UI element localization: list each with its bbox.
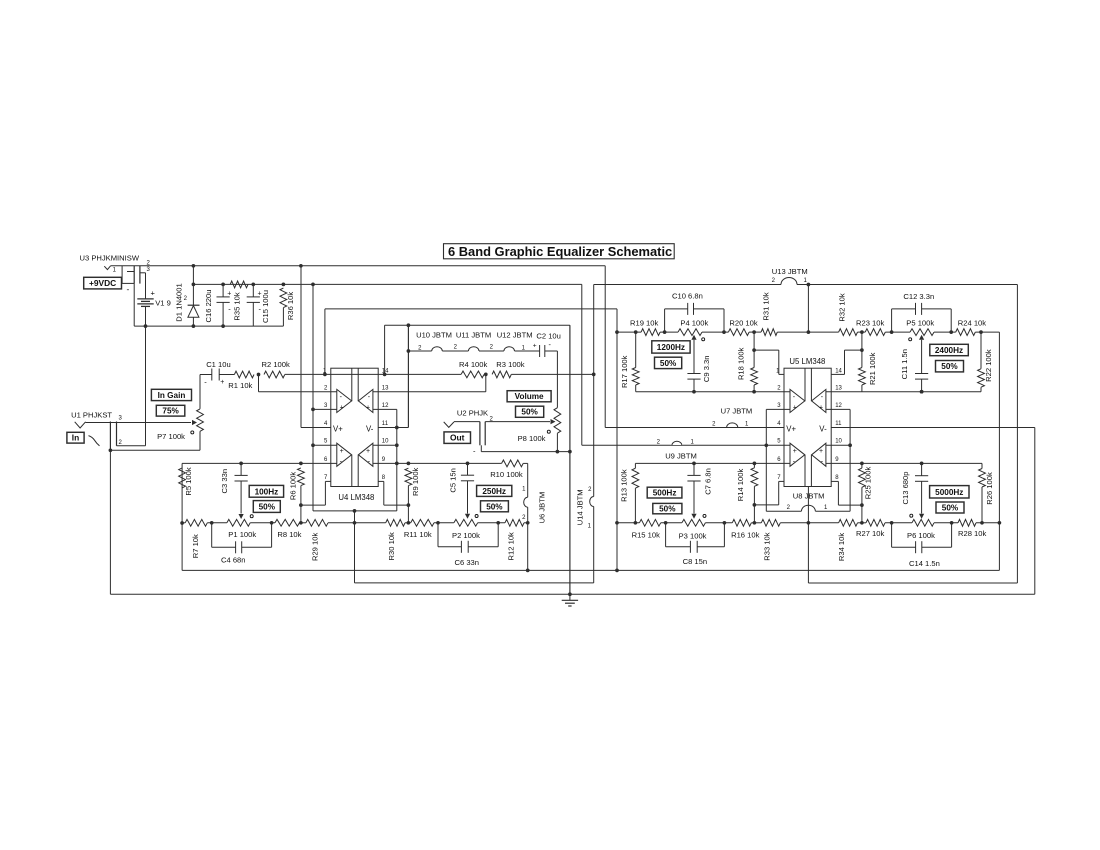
svg-text:+: +: [340, 404, 344, 411]
svg-text:C4 68n: C4 68n: [221, 556, 246, 565]
svg-text:R16 10k: R16 10k: [731, 530, 759, 539]
svg-text:500Hz: 500Hz: [653, 489, 677, 498]
svg-text:C3 33n: C3 33n: [220, 469, 229, 494]
svg-text:R33 10k: R33 10k: [763, 532, 772, 560]
svg-text:R12 10k: R12 10k: [507, 532, 516, 560]
svg-text:R29 10k: R29 10k: [310, 533, 319, 561]
svg-text:R13 100k: R13 100k: [620, 469, 629, 502]
svg-text:+: +: [819, 448, 823, 455]
svg-text:R11 10k: R11 10k: [404, 530, 432, 539]
svg-text:+: +: [793, 448, 797, 455]
svg-text:50%: 50%: [660, 359, 677, 368]
svg-text:75%: 75%: [162, 407, 179, 416]
svg-text:6 Band Graphic Equalizer Schem: 6 Band Graphic Equalizer Schematic: [448, 244, 672, 259]
svg-text:11: 11: [835, 421, 842, 427]
svg-text:R15 10k: R15 10k: [632, 530, 660, 539]
svg-text:U1 PHJKST: U1 PHJKST: [71, 410, 112, 419]
svg-text:+: +: [227, 290, 231, 297]
svg-text:P4 100k: P4 100k: [680, 318, 708, 327]
svg-text:In: In: [72, 433, 79, 443]
svg-text:14: 14: [835, 369, 842, 375]
svg-text:R6 100k: R6 100k: [288, 472, 297, 500]
svg-text:R9 100k: R9 100k: [411, 467, 420, 495]
svg-text:U10 JBTM: U10 JBTM: [416, 331, 452, 340]
svg-text:50%: 50%: [942, 504, 959, 513]
svg-text:C1 10u: C1 10u: [206, 360, 231, 369]
svg-text:Volume: Volume: [515, 392, 544, 401]
svg-text:R36 10k: R36 10k: [286, 292, 295, 320]
svg-text:U7 JBTM: U7 JBTM: [721, 407, 753, 416]
svg-text:C8 15n: C8 15n: [683, 557, 708, 566]
svg-text:10: 10: [835, 439, 842, 445]
svg-text:P6 100k: P6 100k: [907, 531, 935, 540]
svg-text:R19 10k: R19 10k: [630, 318, 658, 327]
svg-text:R14 100k: R14 100k: [736, 469, 745, 502]
svg-text:U5 LM348: U5 LM348: [789, 357, 825, 366]
svg-text:100Hz: 100Hz: [255, 487, 279, 496]
svg-text:12: 12: [382, 403, 389, 409]
svg-text:+: +: [819, 404, 823, 411]
svg-text:R17 100k: R17 100k: [620, 355, 629, 388]
svg-text:P1 100k: P1 100k: [228, 530, 256, 539]
svg-text:R10 100k: R10 100k: [490, 470, 523, 479]
svg-text:P2 100k: P2 100k: [452, 531, 480, 540]
svg-text:C12 3.3n: C12 3.3n: [903, 292, 934, 301]
svg-text:R5 100k: R5 100k: [184, 467, 193, 495]
svg-text:+: +: [793, 404, 797, 411]
svg-text:C15 100u: C15 100u: [261, 290, 270, 323]
svg-text:R25 100k: R25 100k: [864, 467, 873, 500]
svg-text:5000Hz: 5000Hz: [935, 488, 963, 497]
svg-text:U13 JBTM: U13 JBTM: [772, 267, 808, 276]
svg-text:C14 1.5n: C14 1.5n: [909, 559, 940, 568]
svg-text:R8 10k: R8 10k: [277, 530, 301, 539]
svg-text:R26 100k: R26 100k: [985, 472, 994, 505]
svg-text:C6 33n: C6 33n: [455, 558, 480, 567]
svg-text:+: +: [220, 379, 224, 386]
svg-text:R18 100k: R18 100k: [737, 347, 746, 380]
svg-text:+: +: [340, 448, 344, 455]
svg-text:C9 3.3n: C9 3.3n: [702, 355, 711, 382]
svg-text:U3 PHJKMINISW: U3 PHJKMINISW: [80, 253, 140, 262]
svg-text:P7 100k: P7 100k: [157, 432, 185, 441]
svg-text:V-: V-: [819, 424, 827, 433]
svg-text:P8 100k: P8 100k: [518, 434, 546, 443]
svg-text:C7 6.8n: C7 6.8n: [704, 468, 713, 495]
svg-text:+: +: [366, 448, 370, 455]
svg-text:50%: 50%: [259, 503, 276, 512]
svg-text:R27 10k: R27 10k: [856, 529, 884, 538]
svg-text:U14 JBTM: U14 JBTM: [575, 489, 584, 525]
svg-text:13: 13: [382, 385, 389, 391]
svg-text:V+: V+: [333, 424, 343, 433]
svg-text:D1 1N4001: D1 1N4001: [174, 283, 183, 321]
svg-text:50%: 50%: [486, 502, 503, 511]
svg-text:U4 LM348: U4 LM348: [338, 493, 374, 502]
svg-text:50%: 50%: [941, 362, 958, 371]
svg-text:P3 100k: P3 100k: [679, 531, 707, 540]
svg-text:C11 1.5n: C11 1.5n: [900, 349, 909, 379]
svg-text:R7 10k: R7 10k: [191, 534, 200, 558]
svg-text:R21 100k: R21 100k: [868, 352, 877, 385]
svg-text:R24 10k: R24 10k: [958, 318, 986, 327]
svg-text:50%: 50%: [659, 505, 676, 514]
svg-text:250Hz: 250Hz: [482, 487, 506, 496]
svg-text:1200Hz: 1200Hz: [657, 343, 685, 352]
svg-text:+: +: [151, 288, 156, 297]
svg-text:V1 9: V1 9: [155, 299, 171, 308]
svg-text:R23 10k: R23 10k: [856, 318, 884, 327]
svg-text:V-: V-: [366, 424, 374, 433]
svg-text:In Gain: In Gain: [158, 391, 186, 400]
svg-text:R28 10k: R28 10k: [958, 529, 986, 538]
svg-text:13: 13: [835, 385, 842, 391]
svg-text:C5 15n: C5 15n: [449, 468, 458, 493]
svg-text:R34 10k: R34 10k: [837, 533, 846, 561]
svg-text:2400Hz: 2400Hz: [935, 346, 963, 355]
svg-text:C10 6.8n: C10 6.8n: [672, 291, 703, 300]
svg-text:U11 JBTM: U11 JBTM: [456, 331, 491, 340]
svg-text:C16 220u: C16 220u: [204, 290, 213, 323]
svg-text:R1 10k: R1 10k: [228, 381, 252, 390]
svg-text:R32 10k: R32 10k: [838, 293, 847, 321]
svg-text:R35 10k: R35 10k: [233, 292, 242, 320]
svg-text:+: +: [366, 404, 370, 411]
svg-text:U9 JBTM: U9 JBTM: [665, 452, 697, 461]
svg-text:R20 10k: R20 10k: [729, 318, 757, 327]
svg-text:U2 PHJK: U2 PHJK: [457, 408, 488, 417]
svg-text:P5 100k: P5 100k: [906, 318, 934, 327]
svg-text:10: 10: [382, 439, 389, 445]
svg-text:+9VDC: +9VDC: [89, 278, 116, 288]
svg-text:Out: Out: [450, 433, 465, 443]
svg-text:U6 JBTM: U6 JBTM: [538, 492, 547, 524]
svg-text:R3 100k: R3 100k: [496, 360, 524, 369]
svg-text:R31 10k: R31 10k: [762, 292, 771, 320]
svg-text:-: -: [127, 284, 130, 294]
svg-text:R30 10k: R30 10k: [387, 532, 396, 560]
svg-text:R4 100k: R4 100k: [459, 360, 487, 369]
svg-text:R2 100k: R2 100k: [262, 360, 290, 369]
svg-text:11: 11: [382, 421, 389, 427]
svg-text:12: 12: [835, 403, 842, 409]
svg-text:R22 100k: R22 100k: [984, 349, 993, 382]
svg-text:C13 680p: C13 680p: [901, 472, 910, 505]
svg-text:50%: 50%: [521, 408, 538, 417]
svg-text:V+: V+: [786, 424, 796, 433]
svg-text:U12 JBTM: U12 JBTM: [497, 331, 533, 340]
svg-text:+: +: [533, 342, 537, 349]
